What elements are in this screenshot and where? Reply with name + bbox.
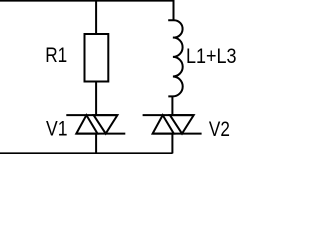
svg-text:R1: R1: [45, 44, 67, 67]
inductor L1+L3: [168, 20, 183, 96]
wire V2 to bottom rail: [171, 134, 173, 154]
triac V2: [143, 115, 202, 134]
wire top of middle branch: [95, 1, 97, 34]
svg-text:V1: V1: [46, 117, 68, 140]
resistor R1: [85, 34, 109, 82]
wire V1 to bottom rail: [95, 134, 97, 154]
svg-text:L1+L3: L1+L3: [186, 45, 237, 68]
wire inductor to V2: [171, 97, 173, 116]
svg-text:V2: V2: [209, 118, 230, 141]
wire top rail with corner into inductor branch: [0, 1, 174, 20]
wire resistor to V1: [95, 82, 97, 116]
wire bottom rail: [0, 152, 173, 154]
triac V1: [66, 115, 125, 134]
